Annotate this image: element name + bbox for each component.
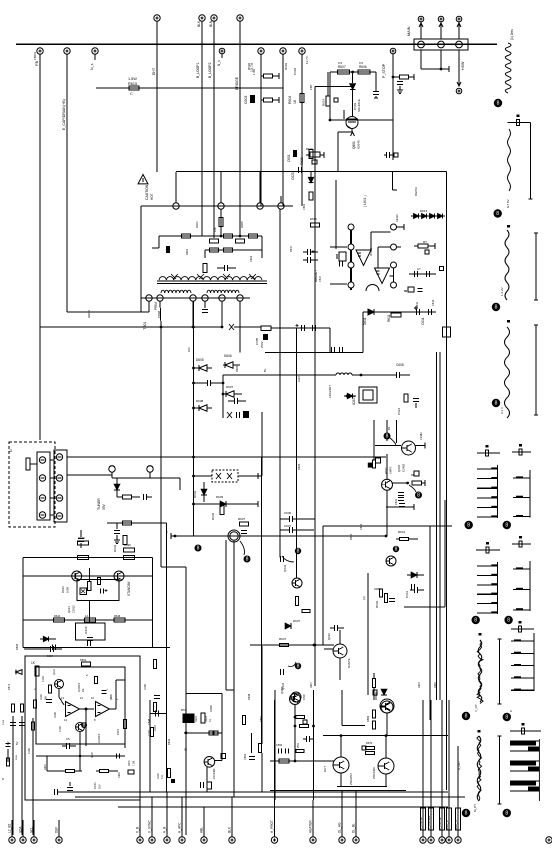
svg-text:R605: R605 xyxy=(240,221,244,228)
resistor R650 1K xyxy=(35,666,39,676)
svg-text:GND_S: GND_S xyxy=(454,820,458,830)
scope ball 6 xyxy=(503,521,511,529)
waveform W3 wave xyxy=(505,230,509,300)
svg-text:R640: R640 xyxy=(349,533,353,540)
svg-text:D607: D607 xyxy=(226,385,234,389)
wire vertical x440 xyxy=(439,352,441,700)
svg-text:2SD2253: 2SD2253 xyxy=(349,773,353,785)
svg-text:KSC: KSC xyxy=(302,694,306,700)
svg-text:R617: R617 xyxy=(289,245,293,252)
capacitor C607h xyxy=(311,325,313,331)
resistor R612 xyxy=(418,244,428,248)
diode D641 xyxy=(411,572,417,578)
resistor R611 xyxy=(391,313,401,317)
capacitor C602 xyxy=(223,265,225,271)
pin A xyxy=(418,41,425,48)
svg-text:IC602: IC602 xyxy=(369,248,373,256)
svg-text:R107: R107 xyxy=(91,752,94,758)
xfmr pin P2 xyxy=(218,203,224,209)
terminal FB1 xyxy=(37,48,43,54)
terminal SCL xyxy=(31,837,37,843)
resistor R633 xyxy=(123,536,127,545)
svg-text:C652: C652 xyxy=(243,753,247,760)
svg-text:C2482: C2482 xyxy=(402,463,406,472)
parts column x315 y225 xyxy=(311,223,320,227)
box part x169 xyxy=(167,769,170,778)
wire vertical x436 xyxy=(436,352,438,700)
svg-text:C653: C653 xyxy=(276,743,283,747)
strip B pin2 xyxy=(56,475,62,481)
svg-text:C2482: C2482 xyxy=(419,432,423,440)
diode chain D613 xyxy=(411,215,445,217)
resistor R639b on rail xyxy=(124,555,135,559)
wire r647 row xyxy=(250,644,330,646)
waveform W12 square wave xyxy=(538,739,540,801)
svg-text:C621: C621 xyxy=(394,498,398,505)
resistor R653 xyxy=(33,700,36,708)
wire x280 vert xyxy=(279,209,281,557)
terminal HSW xyxy=(456,88,462,94)
secondary winding B xyxy=(207,290,239,293)
capacitor C631 xyxy=(114,529,120,531)
svg-text:R647: R647 xyxy=(279,637,287,641)
wire verticals bottom centre xyxy=(185,567,187,835)
svg-text:B1: B1 xyxy=(387,426,391,430)
connector CN_MAIN box xyxy=(414,39,468,50)
capacitor C608 xyxy=(395,372,397,378)
parts left of Q601 xyxy=(376,458,381,463)
wire heater row xyxy=(330,71,376,73)
scope ball 7 xyxy=(472,616,480,624)
svg-text:C605: C605 xyxy=(255,337,259,345)
diode D601 xyxy=(166,246,170,253)
junction ball F xyxy=(295,663,301,669)
svg-text:D121: D121 xyxy=(195,715,198,722)
svg-text:R?: R? xyxy=(423,240,427,244)
connector strip A xyxy=(37,452,50,520)
terminal E-CAP xyxy=(64,48,70,54)
terminal above pin B xyxy=(438,16,444,22)
svg-text:D611: D611 xyxy=(415,301,419,308)
svg-text:T601: T601 xyxy=(143,321,147,330)
svg-text:R639: R639 xyxy=(124,543,131,547)
svg-text:8: 8 xyxy=(505,811,508,817)
svg-text:8: 8 xyxy=(507,618,510,624)
svg-text:8: 8 xyxy=(495,401,498,407)
svg-text:8: 8 xyxy=(496,211,499,217)
svg-text:C103: C103 xyxy=(42,676,45,682)
wire elbow x392 xyxy=(392,172,394,190)
capacitor C615 xyxy=(206,380,208,386)
svg-text:R669: R669 xyxy=(366,715,370,722)
wire d611 drop xyxy=(362,312,364,353)
svg-text:1A: 1A xyxy=(85,614,88,618)
capacitor C611 polar xyxy=(415,309,417,315)
capacitor C619 xyxy=(385,152,387,158)
svg-text:(1) 2ms: (1) 2ms xyxy=(510,29,514,40)
capacitor C645 xyxy=(333,625,335,631)
terminal V_B xyxy=(137,837,143,843)
capacitor C641b xyxy=(413,587,415,593)
svg-text:SMPS: SMPS xyxy=(389,466,393,474)
wire y476 to zone xyxy=(258,475,262,477)
scope ball 4 xyxy=(492,399,500,407)
svg-text:C105: C105 xyxy=(59,726,62,732)
capacitor C601 xyxy=(293,150,297,157)
svg-text:D104: D104 xyxy=(157,773,160,779)
svg-text:R646: R646 xyxy=(114,614,121,618)
svg-text:2SC2482: 2SC2482 xyxy=(213,768,216,779)
svg-text:N: N xyxy=(9,449,13,452)
svg-text:33V: 33V xyxy=(102,503,106,510)
diode D652 xyxy=(381,689,387,695)
zener D607 xyxy=(226,391,234,397)
svg-text:GT 5V: GT 5V xyxy=(506,199,510,208)
waveform W2 header xyxy=(507,122,530,124)
terminal far right xyxy=(546,837,552,843)
svg-text:HSW: HSW xyxy=(461,61,465,70)
svg-text:1 6.2V: 1 6.2V xyxy=(500,287,504,296)
waveform W7 pulses xyxy=(496,562,498,614)
terminal N+ xyxy=(92,48,98,54)
diode D609 box xyxy=(227,412,232,418)
svg-text:C648: C648 xyxy=(147,718,151,725)
junction ball C xyxy=(195,545,202,552)
resistor R615 xyxy=(96,87,283,89)
svg-text:9.1 V: 9.1 V xyxy=(500,407,504,414)
capacitor C624 xyxy=(404,394,408,402)
svg-text:0.5: 0.5 xyxy=(359,61,364,65)
wire heater right drop xyxy=(375,72,377,92)
svg-text:7.5K: 7.5K xyxy=(132,760,136,766)
svg-text:R648: R648 xyxy=(247,693,251,700)
svg-text:D608: D608 xyxy=(196,399,204,403)
diode D620 xyxy=(308,177,313,182)
wire vertical x195 mid xyxy=(193,457,195,536)
svg-text:E_CAP/DRAIN(+B): E_CAP/DRAIN(+B) xyxy=(62,99,66,130)
junction ball E xyxy=(81,722,87,728)
transistor Q653 big xyxy=(380,699,394,713)
svg-text:FB: FB xyxy=(34,61,39,66)
svg-text:Q601: Q601 xyxy=(397,464,401,472)
posistor TH601 xyxy=(228,530,240,542)
svg-text:FB601: FB601 xyxy=(33,51,37,60)
junction ball B xyxy=(415,492,422,499)
terminal H_AFC xyxy=(179,837,185,843)
wire vertical x448 xyxy=(446,172,448,791)
svg-text:PRIM: PRIM xyxy=(157,310,161,318)
svg-text:R638: R638 xyxy=(78,536,85,540)
scope ball 3 xyxy=(492,303,500,311)
component box x448 top xyxy=(443,327,451,337)
parts row 748 xyxy=(278,748,280,753)
capacitor C636 xyxy=(288,516,290,522)
svg-text:IC630: IC630 xyxy=(84,626,88,634)
wire standby rail1 xyxy=(23,556,153,558)
svg-text:C601: C601 xyxy=(287,154,291,162)
waveform W6 pulses xyxy=(529,470,531,518)
warning triangle xyxy=(138,175,148,184)
wire r614 xyxy=(327,72,329,96)
svg-text:STANDBY: STANDBY xyxy=(127,580,131,596)
svg-text:TUNER: TUNER xyxy=(97,498,101,510)
transistor Q652 big xyxy=(378,758,394,774)
crystal box xyxy=(339,252,346,261)
scope ball 5 xyxy=(465,521,473,529)
wire vertical x374 top xyxy=(373,420,375,446)
wire x150 column xyxy=(149,700,151,792)
IC601 regulator xyxy=(359,387,377,403)
junction ball D xyxy=(244,556,251,563)
wire mid drop xyxy=(79,732,81,771)
resistor R602 xyxy=(264,74,273,78)
scope ball 2 xyxy=(494,209,502,217)
svg-text:C110: C110 xyxy=(3,719,5,725)
svg-text:L603/4R7: L603/4R7 xyxy=(328,385,332,398)
terminal H_PROT xyxy=(271,837,277,843)
wire x262 lower xyxy=(261,412,263,476)
svg-text:H_OUT: H_OUT xyxy=(457,761,461,770)
svg-text:R105: R105 xyxy=(110,694,113,700)
wire bottom rail 2 xyxy=(75,796,465,798)
svg-text:CAUTION: CAUTION xyxy=(145,184,149,200)
parts 244-260 xyxy=(242,716,245,725)
transistor Q601 mosfet xyxy=(346,117,358,129)
svg-text:C620: C620 xyxy=(291,172,295,180)
wire y756 xyxy=(36,755,125,757)
primary winding xyxy=(159,277,262,280)
diode D637 xyxy=(285,623,291,629)
wire standby rail3 xyxy=(23,619,153,621)
wire x161 jog xyxy=(161,566,186,568)
svg-text:R633: R633 xyxy=(113,544,117,552)
terminal D3 xyxy=(299,48,305,54)
capacitor C635 xyxy=(52,645,54,651)
wire standby rail2 xyxy=(23,575,153,577)
resistor R638 above xyxy=(78,541,89,545)
scope ball 10 xyxy=(503,713,511,721)
wire x166 tuner drop xyxy=(166,523,168,792)
svg-text:R611: R611 xyxy=(387,314,391,322)
wire q603 emitter xyxy=(386,490,388,536)
terminal V_PULSE xyxy=(439,837,445,843)
resistor R644 xyxy=(54,618,65,622)
zener D606 xyxy=(225,362,233,368)
svg-text:8: 8 xyxy=(495,305,498,311)
terminal DL_BL xyxy=(353,837,359,843)
wire heater left drop xyxy=(329,72,331,120)
svg-text:R651: R651 xyxy=(80,658,87,662)
wire vertical x396 top xyxy=(396,420,398,443)
strip A pin4 xyxy=(39,512,45,518)
capacitor C618 xyxy=(397,80,403,82)
svg-text:2SD2499: 2SD2499 xyxy=(372,767,376,779)
wire rail y735 xyxy=(323,735,448,737)
svg-text:BLK: BLK xyxy=(197,20,201,27)
optocoupler box xyxy=(77,579,119,600)
svg-text:8V: 8V xyxy=(263,369,267,372)
svg-text:R646: R646 xyxy=(375,600,379,608)
svg-text:250V: 250V xyxy=(260,341,264,348)
capacitor C605 box xyxy=(234,326,261,328)
wire row 504 xyxy=(194,503,259,505)
svg-text:GND1: GND1 xyxy=(87,310,91,318)
svg-text:D606: D606 xyxy=(224,354,232,358)
svg-text:MAGNET: MAGNET xyxy=(314,270,318,282)
svg-text:R601: R601 xyxy=(195,221,199,228)
transistor Q642 xyxy=(204,757,215,768)
wire AC neutral xyxy=(67,474,112,476)
svg-text:36K: 36K xyxy=(45,695,48,700)
svg-text:DEF: DEF xyxy=(55,827,59,833)
wire left drops xyxy=(12,716,14,835)
waveform W2 ruler xyxy=(529,123,531,200)
wire emitter rail y507 xyxy=(386,506,414,508)
inductor L603 xyxy=(336,373,352,375)
svg-text:0.5: 0.5 xyxy=(338,61,343,65)
transistor Q631 xyxy=(114,571,124,581)
wire standby frame xyxy=(22,557,24,647)
parts bottom xyxy=(408,287,414,292)
svg-text:C603: C603 xyxy=(244,96,248,104)
svg-text:R102: R102 xyxy=(40,694,43,700)
wire y732 xyxy=(184,732,222,734)
svg-text:C107: C107 xyxy=(148,730,151,736)
svg-text:D633: D633 xyxy=(216,495,224,499)
svg-text:R641: R641 xyxy=(398,530,406,534)
ball H + cluster top xyxy=(393,546,399,552)
small box right xyxy=(439,267,443,271)
svg-text:PRIM: PRIM xyxy=(154,302,158,310)
wire elbow x330 xyxy=(329,328,331,353)
pin C xyxy=(456,41,463,48)
wire rail to caps xyxy=(271,327,330,329)
wire q601 source down xyxy=(351,129,353,133)
wire q-drop xyxy=(233,541,235,542)
svg-text:ABL: ABL xyxy=(200,827,204,833)
wire q collectors xyxy=(340,736,342,757)
resistor R620 xyxy=(309,150,313,159)
svg-text:10K: 10K xyxy=(213,227,217,232)
svg-text:R6: R6 xyxy=(411,473,415,477)
svg-text:8: 8 xyxy=(297,549,300,555)
svg-text:FIL: FIL xyxy=(81,688,85,692)
svg-text:8: 8 xyxy=(417,493,420,499)
svg-text:BLN: BLN xyxy=(209,20,213,27)
junction x-mark xyxy=(229,324,234,330)
terminal H_PULSE2 xyxy=(428,837,434,843)
wire u2 in xyxy=(377,247,379,268)
terminal L2_B2 xyxy=(9,837,15,843)
resistor R643 inside xyxy=(98,578,101,585)
wire main AC bus xyxy=(16,43,497,45)
wire bottom rail 1 xyxy=(57,791,448,793)
capacitor C641 xyxy=(46,699,52,701)
parts R619 xyxy=(310,152,320,157)
wire box left x323 xyxy=(322,526,324,645)
resistor R604 xyxy=(300,94,304,103)
svg-text:C640: C640 xyxy=(359,523,363,530)
op-amp U2 down xyxy=(375,268,390,284)
svg-text:C601: C601 xyxy=(302,203,306,210)
svg-text:C5: C5 xyxy=(66,737,70,741)
wire zener verticals xyxy=(193,301,195,536)
svg-text:SCL: SCL xyxy=(30,827,34,833)
wire bracket below connector xyxy=(420,50,422,69)
svg-text:R674: R674 xyxy=(310,682,313,688)
scope ball 12 xyxy=(503,809,511,817)
resistor R664 xyxy=(300,724,309,727)
resistor R651 xyxy=(82,662,91,666)
svg-text:100K: 100K xyxy=(66,587,70,593)
waveform W9 wavy xyxy=(478,640,482,702)
svg-text:N3STE: N3STE xyxy=(347,658,351,668)
deflection box xyxy=(25,656,140,800)
resistor R631 xyxy=(123,495,132,499)
svg-text:D632: D632 xyxy=(193,490,197,498)
svg-text:1K: 1K xyxy=(293,99,297,104)
terminal H_B xyxy=(164,837,170,843)
svg-text:C613: C613 xyxy=(431,299,435,306)
svg-text:SE110: SE110 xyxy=(395,214,399,222)
wire standby rail4 xyxy=(23,646,170,648)
wire rail y352 xyxy=(265,352,363,354)
ladder verticals xyxy=(158,236,160,248)
capacitor C644i xyxy=(100,588,102,593)
wire q emitters xyxy=(340,773,342,787)
svg-text:B_LOOP2: B_LOOP2 xyxy=(208,62,212,78)
zener D650 xyxy=(16,670,22,675)
resistor R645s xyxy=(85,618,96,622)
svg-text:R636: R636 xyxy=(211,512,215,520)
cross part y713 xyxy=(150,713,167,715)
capacitor C642 xyxy=(65,743,67,749)
terminal HEATER xyxy=(310,837,316,843)
svg-text:R614: R614 xyxy=(322,98,326,106)
svg-text:D605: D605 xyxy=(196,358,204,362)
wire inner left xyxy=(32,718,34,745)
svg-text:Q110: Q110 xyxy=(53,669,56,675)
svg-text:C654: C654 xyxy=(434,682,437,688)
transistor Q633 xyxy=(292,578,302,588)
left col extra xyxy=(6,743,11,745)
strip B pin4 xyxy=(56,513,62,519)
terminal T4 top xyxy=(237,15,243,21)
transistor Q640 xyxy=(55,680,64,689)
svg-text:OUT: OUT xyxy=(323,766,327,772)
capacitor C620 xyxy=(297,167,299,173)
wire sec pin drops xyxy=(148,301,150,312)
svg-text:8: 8 xyxy=(197,546,200,552)
strip A pin2 xyxy=(39,475,45,481)
resistor R641b xyxy=(400,537,409,540)
svg-text:HEATER: HEATER xyxy=(309,820,313,833)
wire box top y526 xyxy=(323,525,452,527)
wire top L xyxy=(186,693,222,695)
svg-text:P_STOP: P_STOP xyxy=(382,63,386,78)
svg-text:1K: 1K xyxy=(209,719,212,722)
wire bottom rail 3 xyxy=(118,806,448,808)
svg-text:C608: C608 xyxy=(396,363,404,367)
wire jumper row xyxy=(112,477,180,479)
wire y456 link xyxy=(196,456,386,458)
resistor R652 xyxy=(48,685,51,693)
svg-text:8: 8 xyxy=(83,723,86,729)
terminal SDA xyxy=(20,837,26,843)
xfmr pin P3 xyxy=(257,203,263,209)
svg-text:R: R xyxy=(1,778,5,780)
svg-text:R607: R607 xyxy=(338,65,346,69)
